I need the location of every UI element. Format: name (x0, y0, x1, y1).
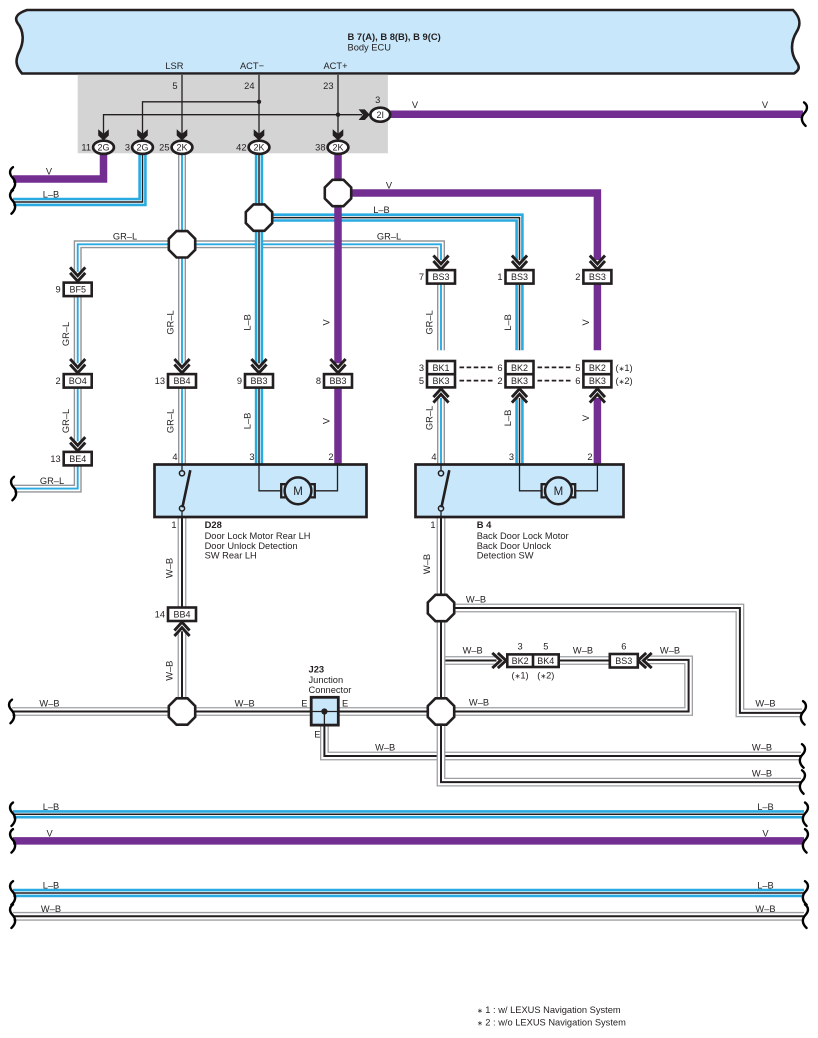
svg-text:BK3: BK3 (511, 376, 528, 386)
svg-text:L–B: L–B (43, 881, 60, 891)
svg-text:Connector: Connector (309, 685, 352, 695)
connector 1 BS3 (497, 270, 533, 284)
svg-text:B 7(A), B 8(B), B 9(C): B 7(A), B 8(B), B 9(C) (348, 31, 441, 42)
wire W-B J23 to BS3 loop via octagon (338, 660, 688, 712)
wire LSR pin 5 lead (181, 75, 183, 134)
svg-text:W–B: W–B (469, 698, 489, 708)
wire GR-L BK3 to B4 pin4 (437, 398, 445, 465)
svg-text:Door Unlock Detection: Door Unlock Detection (205, 541, 298, 551)
arrow into pin 3 2G (137, 129, 148, 140)
svg-text:GR–L: GR–L (61, 322, 71, 346)
svg-text:5: 5 (543, 642, 548, 652)
svg-text:5: 5 (575, 363, 580, 373)
svg-text:BE4: BE4 (69, 454, 86, 464)
motor B4 (542, 477, 576, 504)
svg-text:W–B: W–B (466, 594, 486, 604)
svg-text:2G: 2G (136, 143, 148, 153)
svg-text:Back Door Lock Motor: Back Door Lock Motor (477, 531, 569, 541)
switch B4 (438, 465, 449, 518)
arrow into 9 BF5 (70, 267, 85, 281)
motor D28 (281, 477, 315, 504)
svg-text:L–B: L–B (243, 413, 253, 430)
connector 9 BF5 (56, 283, 92, 297)
wire GR-L BE4 to left edge (14, 465, 78, 488)
motor D28 wiring (259, 465, 338, 491)
connector 9 BB3 (237, 374, 273, 388)
svg-text:4: 4 (431, 452, 436, 462)
svg-text:(∗2): (∗2) (537, 671, 554, 681)
component B4 box (416, 465, 624, 518)
break symbol W-B bottom left (10, 905, 15, 929)
svg-text:L–B: L–B (243, 314, 253, 331)
svg-text:9: 9 (237, 376, 242, 386)
connector 6 BS3 horizontal (610, 654, 638, 668)
svg-text:W–B: W–B (755, 698, 775, 708)
wire W-B D28 pin1 to 14 BB4 (178, 517, 187, 608)
connector stack BK2/BK3 right (575, 361, 611, 387)
svg-text:1: 1 (171, 520, 176, 530)
svg-text:W–B: W–B (660, 646, 680, 656)
connector 2I pin 3 (370, 108, 390, 122)
svg-text:V: V (322, 319, 332, 326)
dashed link BK3-BK3 row2 (460, 380, 493, 382)
component D28 box (155, 465, 367, 518)
connector 13 BB4 (155, 374, 196, 388)
connector stack BK2/BK3 mid (497, 361, 533, 387)
svg-text:L–B: L–B (43, 190, 60, 200)
ECU connector region (78, 75, 388, 154)
wire L-B full width lower (13, 889, 804, 897)
arrow out of BK3 left (433, 389, 448, 403)
svg-text:L–B: L–B (757, 802, 774, 812)
svg-text:GR–L: GR–L (425, 406, 435, 430)
svg-text:2: 2 (587, 452, 592, 462)
svg-text:(∗1): (∗1) (616, 363, 633, 373)
wire L-B BK3 to B4 pin3 (515, 398, 523, 465)
wire W-B branch to BK2 arrows (441, 656, 497, 665)
svg-text:5: 5 (172, 81, 177, 91)
svg-text:V: V (581, 414, 591, 421)
svg-text:V: V (46, 828, 53, 838)
wire L-B pin42 down to 9 BB3 (255, 153, 263, 363)
motor B4 wiring (520, 465, 598, 491)
break symbol W-B right2 (800, 744, 805, 768)
svg-text:V: V (46, 166, 53, 176)
svg-text:14: 14 (155, 610, 165, 620)
break symbol L-B bottom1 right (803, 803, 808, 827)
svg-text:BB3: BB3 (250, 376, 267, 386)
wire J23 down lead (323, 712, 325, 726)
break symbol L-B bottom2 right (803, 881, 808, 905)
svg-text:24: 24 (244, 81, 254, 91)
svg-text:GR–L: GR–L (166, 409, 176, 433)
svg-text:Junction: Junction (309, 675, 344, 685)
arrow into 2 BS3 (590, 256, 605, 270)
wire W-B octagon right to right edge (441, 608, 802, 713)
break symbol W-B left (9, 700, 14, 724)
svg-text:1: 1 (497, 272, 502, 282)
svg-text:M: M (293, 486, 303, 498)
break symbol GR-L left (11, 477, 16, 501)
arrow into pin 38 2K (333, 129, 344, 140)
connector 2K pin 38 (315, 141, 348, 154)
wire W-B full width (13, 912, 804, 921)
svg-text:BK2: BK2 (589, 363, 606, 373)
svg-text:W–B: W–B (755, 904, 775, 914)
svg-text:BS3: BS3 (432, 272, 449, 282)
wire GR-L trunk BF5 to 7 BS3 (78, 244, 441, 271)
break symbol L-B bottom1 left (10, 803, 15, 827)
wire GR-L 13 BB4 to D28 pin4 (178, 388, 186, 465)
svg-text:8: 8 (316, 376, 321, 386)
svg-text:W–B: W–B (752, 769, 772, 779)
svg-text:3: 3 (518, 642, 523, 652)
arrow into 9 BB3 (251, 359, 266, 373)
svg-text:SW Rear LH: SW Rear LH (205, 550, 257, 560)
arrow into 8 BB3 (330, 359, 345, 373)
junction dot ACT+ branch (336, 113, 340, 117)
svg-text:V: V (581, 319, 591, 326)
connector 8 BB3 (316, 374, 352, 388)
svg-text:W–B: W–B (422, 554, 432, 574)
connector 2 BS3 (575, 270, 611, 284)
wire L-B pin3 to left edge (13, 153, 143, 202)
connector 2G pin 3 (125, 141, 153, 154)
wire through J23 (311, 711, 338, 713)
svg-text:3: 3 (509, 452, 514, 462)
wire W-B BK4 to BS3 (535, 656, 611, 665)
svg-text:7: 7 (419, 272, 424, 282)
svg-text:BK2: BK2 (511, 363, 528, 373)
svg-text:6: 6 (497, 363, 502, 373)
svg-text:38: 38 (315, 143, 325, 153)
svg-text:V: V (762, 100, 769, 110)
break symbol L-B left (10, 190, 15, 214)
svg-text:GR–L: GR–L (113, 232, 137, 242)
wire GR-L BF5 to BO4 (74, 296, 82, 363)
svg-text:E: E (314, 730, 320, 740)
connector 7 BS3 (419, 270, 455, 284)
connector stack BK1/BK3 (419, 361, 455, 387)
svg-text:LSR: LSR (165, 61, 183, 71)
svg-text:6: 6 (621, 642, 626, 652)
break symbol V top right (802, 102, 807, 126)
connector pair BK2/BK4 (507, 654, 558, 667)
svg-text:Door Lock Motor Rear LH: Door Lock Motor Rear LH (205, 531, 311, 541)
svg-text:Back Door Unlock: Back Door Unlock (477, 541, 552, 551)
svg-text:13: 13 (50, 454, 60, 464)
wire L-B trunk from octagon to 1 BS3 (259, 218, 520, 260)
wire V trunk from octagon to 2 BS3 (338, 193, 597, 260)
svg-text:13: 13 (155, 376, 165, 386)
svg-text:BK3: BK3 (589, 376, 606, 386)
wire L-B 1 BS3 to BK2 (515, 284, 523, 351)
arrow into BK2 horizontal (492, 653, 506, 668)
svg-text:W–B: W–B (165, 661, 175, 681)
svg-text:GR–L: GR–L (425, 310, 435, 334)
svg-text:1: 1 (430, 520, 435, 530)
svg-text:L–B: L–B (503, 410, 513, 427)
svg-text:GR–L: GR–L (377, 232, 401, 242)
svg-text:2: 2 (328, 452, 333, 462)
svg-text:(∗2): (∗2) (616, 376, 633, 386)
dashed link BK3-BK3 row2 right (538, 380, 571, 382)
svg-text:V: V (762, 828, 769, 838)
wire V pin38 down to 8 BB3 (334, 153, 342, 363)
svg-text:BS3: BS3 (511, 272, 528, 282)
svg-text:2K: 2K (332, 143, 343, 153)
svg-text:D28: D28 (205, 519, 222, 530)
break symbol L-B bottom2 left (10, 881, 15, 905)
svg-text:5: 5 (419, 376, 424, 386)
dashed link BK2-BK2 row1 right (538, 366, 571, 368)
svg-text:4: 4 (172, 452, 177, 462)
wire V BK3 to B4 pin2 (594, 398, 602, 465)
svg-text:W–B: W–B (235, 699, 255, 709)
svg-text:GR–L: GR–L (61, 409, 71, 433)
svg-text:J23: J23 (309, 664, 325, 675)
arrow into 13 BE4 (70, 437, 85, 451)
wire V full width (13, 837, 804, 845)
dashed link BK1-BK2 row1 (460, 366, 493, 368)
svg-text:W–B: W–B (375, 743, 395, 753)
svg-text:2: 2 (56, 376, 61, 386)
svg-text:V: V (322, 417, 332, 424)
junction octagon GR-L (169, 231, 195, 257)
Body ECU band (16, 10, 799, 74)
svg-text:ACT−: ACT− (240, 61, 264, 71)
svg-text:BK1: BK1 (432, 363, 449, 373)
arrow into 1 BS3 (512, 256, 527, 270)
wire V 2 BS3 to BK2 (594, 284, 602, 351)
svg-text:6: 6 (575, 376, 580, 386)
arrow into 13 BB4 (174, 359, 189, 373)
svg-text:L–B: L–B (757, 881, 774, 891)
arrow into 7 BS3 (433, 256, 448, 270)
svg-text:E: E (301, 699, 307, 709)
svg-text:2K: 2K (176, 143, 187, 153)
arrow into pin 3 2I (359, 109, 370, 120)
svg-text:E: E (342, 699, 348, 709)
svg-text:BK3: BK3 (432, 376, 449, 386)
junction octagon W-B center (428, 698, 454, 724)
svg-text:2: 2 (575, 272, 580, 282)
svg-text:3: 3 (249, 452, 254, 462)
svg-text:V: V (386, 180, 393, 190)
wire W-B left edge to J23 (12, 707, 311, 716)
svg-text:11: 11 (81, 143, 91, 153)
svg-text:25: 25 (159, 143, 169, 153)
svg-text:∗ 2 : w/o LEXUS Navigation Sys: ∗ 2 : w/o LEXUS Navigation System (477, 1017, 626, 1027)
junction octagon W-B left (169, 698, 195, 724)
junction connector J23 box (311, 697, 338, 725)
svg-text:BS3: BS3 (615, 656, 632, 666)
wire GR-L BO4 to BE4 (74, 388, 82, 442)
wire L-B 9 BB3 to D28 pin3 (255, 388, 263, 465)
connector 2K pin 25 (159, 141, 192, 154)
svg-text:BO4: BO4 (69, 376, 87, 386)
svg-text:L–B: L–B (373, 205, 390, 215)
svg-text:W–B: W–B (165, 558, 175, 578)
svg-text:L–B: L–B (503, 314, 513, 331)
svg-text:3: 3 (125, 143, 130, 153)
break symbol W-B right1 (801, 701, 806, 725)
svg-text:2G: 2G (97, 143, 109, 153)
wire L-B full width upper (13, 810, 804, 818)
svg-text:23: 23 (323, 81, 333, 91)
svg-text:Detection SW: Detection SW (477, 550, 534, 560)
svg-text:W–B: W–B (573, 646, 593, 656)
wire ACT- pin 24 lead (258, 75, 260, 134)
break symbol W-B bottom right (803, 905, 808, 929)
connector 2G pin 11 (81, 141, 114, 154)
connector 14 BB4 (155, 608, 196, 622)
svg-text:GR–L: GR–L (166, 310, 176, 334)
svg-text:9: 9 (56, 285, 61, 295)
junction dot J23 (321, 708, 327, 714)
arrow out of BK3 mid (512, 389, 527, 403)
arrow out of 14 BB4 (174, 622, 189, 636)
svg-text:ACT+: ACT+ (323, 61, 347, 71)
svg-text:BK4: BK4 (537, 656, 554, 666)
svg-text:Body ECU: Body ECU (348, 43, 391, 53)
break symbol W-B right3 (800, 770, 805, 794)
wire W-B J23 bottom to right edge (324, 725, 801, 756)
svg-text:2: 2 (497, 376, 502, 386)
svg-text:W–B: W–B (41, 904, 61, 914)
svg-text:3: 3 (419, 363, 424, 373)
svg-text:W–B: W–B (39, 699, 59, 709)
svg-text:W–B: W–B (463, 646, 483, 656)
svg-text:GR–L: GR–L (40, 476, 64, 486)
svg-text:B 4: B 4 (477, 519, 492, 530)
switch D28 (179, 465, 190, 518)
svg-text:L–B: L–B (43, 802, 60, 812)
svg-text:∗ 1 : w/ LEXUS Navigation Syst: ∗ 1 : w/ LEXUS Navigation System (477, 1005, 621, 1015)
svg-text:M: M (554, 486, 564, 498)
arrow into pin 11 2G (98, 129, 109, 140)
connector 13 BE4 (50, 452, 91, 466)
break symbol V bottom right (803, 829, 808, 853)
wire V from 2I to right edge (390, 110, 803, 118)
wire ACT+ pin 23 lead (337, 75, 339, 134)
break symbol V bottom left (10, 829, 15, 853)
svg-text:42: 42 (236, 143, 246, 153)
junction octagon L-B (246, 204, 272, 230)
arrow into pin 25 2K (177, 129, 188, 140)
svg-text:(∗1): (∗1) (512, 671, 529, 681)
wire GR-L 7 BS3 to BK1 (437, 284, 445, 351)
arrow out of BK3 right (590, 389, 605, 403)
svg-text:2I: 2I (377, 110, 385, 120)
connector 2 BO4 (56, 374, 92, 388)
wire W-B octagon bottom to right edge (441, 712, 801, 783)
junction dot ACT- branch (257, 100, 261, 104)
wire branch to pin 11 2G and 2I (104, 115, 363, 134)
arrow into pin 42 2K (254, 129, 265, 140)
svg-text:BB3: BB3 (329, 376, 346, 386)
junction octagon V (325, 180, 351, 206)
wire branch to pin 3 2G (143, 102, 260, 134)
wire W-B 14 BB4 to octagon (178, 631, 187, 711)
svg-text:BB4: BB4 (173, 609, 190, 619)
wire W-B between octagons x441 (437, 608, 446, 712)
svg-text:BB4: BB4 (173, 376, 190, 386)
connector 2K pin 42 (236, 141, 269, 154)
svg-text:W–B: W–B (752, 743, 772, 753)
junction octagon W-B B4 (428, 595, 454, 621)
svg-text:2K: 2K (253, 143, 264, 153)
svg-text:BK2: BK2 (512, 656, 529, 666)
wire W-B B4 pin1 to octagon (437, 517, 446, 608)
svg-text:BS3: BS3 (589, 272, 606, 282)
wire V 8 BB3 to D28 pin2 (334, 388, 342, 465)
wire V pin11 to left edge (13, 153, 104, 179)
arrow out of BS3 horizontal (638, 653, 652, 668)
svg-text:V: V (412, 100, 419, 110)
break symbol V left (10, 167, 15, 191)
arrow into 2 BO4 (70, 359, 85, 373)
wire GR-L pin25 down to 13 BB4 (178, 153, 186, 363)
svg-text:3: 3 (375, 95, 380, 105)
svg-text:BF5: BF5 (69, 285, 86, 295)
